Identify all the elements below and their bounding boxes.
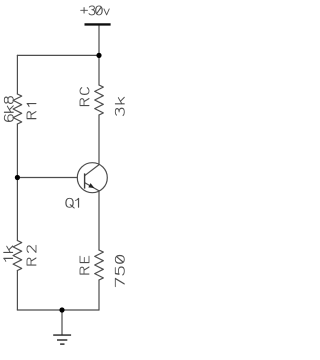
- ground bar middle: [57, 339, 67, 341]
- ground bar bottom: [60, 343, 64, 345]
- label +30v: [81, 6, 110, 15]
- resistor RE body: [95, 250, 104, 280]
- label 750 (rotated): [115, 256, 124, 287]
- label R1 (rotated): [27, 104, 36, 119]
- transistor Q1 emitter diagonal: [85, 183, 100, 191]
- wire: bottom rail horizontal: [17, 309, 99, 311]
- wire: +30v drop to top rail: [98, 26, 100, 56]
- wire: left rail middle (R1 to R2): [16, 124, 18, 241]
- wire: ground stem: [61, 310, 63, 335]
- label RE (rotated): [80, 256, 89, 274]
- wire: left rail bottom (R2 to bottom rail): [16, 271, 18, 311]
- transistor Q1 circle: [77, 163, 107, 193]
- junction dot base node: [15, 175, 20, 180]
- wire: RC to collector: [98, 115, 100, 164]
- label Q1: [66, 198, 79, 208]
- wire: left rail top (to R1): [16, 55, 18, 94]
- wire: base wire to Q1: [17, 177, 77, 179]
- power bar +30v: [85, 23, 111, 25]
- transistor Q1 base bar: [84, 173, 86, 188]
- label 1k (rotated): [4, 246, 13, 261]
- label RC (rotated): [80, 88, 89, 106]
- resistor R2 body: [13, 241, 22, 271]
- ground bar top: [53, 334, 71, 336]
- transistor Q1 emitter arrowhead: [89, 184, 94, 188]
- transistor Q1 collector diagonal: [85, 165, 100, 176]
- junction dot ground node: [59, 307, 64, 312]
- resistor RC body: [95, 85, 104, 115]
- resistor R1 body: [13, 94, 22, 124]
- label 3k (rotated): [115, 97, 124, 115]
- label 6k8 (rotated): [4, 97, 13, 122]
- wire: emitter to RE: [98, 191, 100, 250]
- wire: collector drop from top rail to RC: [98, 55, 100, 85]
- wire: top rail horizontal: [17, 54, 99, 56]
- junction dot top (collector node): [96, 53, 101, 58]
- wire: RE to bottom rail: [98, 280, 100, 310]
- label R2 (rotated): [27, 245, 36, 265]
- ground symbol: [53, 335, 71, 344]
